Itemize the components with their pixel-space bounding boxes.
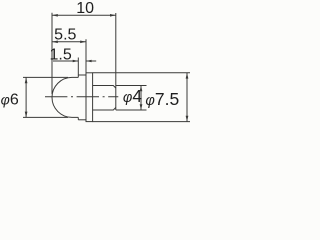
phi4 extension top xyxy=(116,85,147,87)
right extension / stem end face (x=115.8) xyxy=(115,13,117,110)
phi7.5 extension top xyxy=(93,72,190,74)
arrow phi4 top xyxy=(140,86,143,92)
phi6 dimension line xyxy=(25,77,27,117)
arrow 10 right xyxy=(110,14,116,17)
extension line B (x=86) xyxy=(85,39,87,73)
arrow phi6 bottom xyxy=(25,112,28,118)
arrow 5.5 left xyxy=(52,41,58,44)
phi4 dimension line xyxy=(140,86,142,111)
arrow 1.5 left outside xyxy=(73,60,79,63)
arrow phi6 top xyxy=(25,77,28,83)
svg-text:1.5: 1.5 xyxy=(49,46,71,63)
left extension / dome face (x=52) xyxy=(51,13,53,94)
phi7.5 dimension line xyxy=(186,73,188,122)
arrow phi7.5 bottom xyxy=(186,116,189,122)
step at collar xyxy=(77,117,79,119)
arrow phi4 bottom xyxy=(140,104,143,110)
dimension line 1.5 left xyxy=(53,60,78,62)
arrow 5.5 right xyxy=(80,41,86,44)
collar bottom edge xyxy=(78,119,86,121)
svg-text:5.5: 5.5 xyxy=(54,27,76,44)
collar top edge xyxy=(78,74,86,76)
svg-text:10: 10 xyxy=(76,0,94,17)
svg-text:φ6: φ6 xyxy=(1,92,19,109)
phi7.5 extension bottom xyxy=(93,121,190,123)
dimension line 1.5 right xyxy=(86,60,96,62)
arrow 1.5 right outside xyxy=(86,60,92,63)
centerline xyxy=(45,96,118,98)
extension line A (x=78.3) xyxy=(77,58,79,78)
stem xyxy=(93,86,116,111)
phi4 extension bottom xyxy=(116,109,147,111)
phi6 extension top xyxy=(23,76,68,78)
dome outline xyxy=(52,77,78,117)
arrow 10 left xyxy=(52,14,58,17)
svg-text:φ4: φ4 xyxy=(123,86,142,106)
dimension line 10 xyxy=(52,14,116,16)
flange xyxy=(86,73,93,122)
phi6 extension bottom xyxy=(23,116,68,118)
arrow phi7.5 top xyxy=(186,73,189,79)
svg-text:φ7.5: φ7.5 xyxy=(145,89,179,109)
dimension line 5.5 xyxy=(52,41,86,43)
